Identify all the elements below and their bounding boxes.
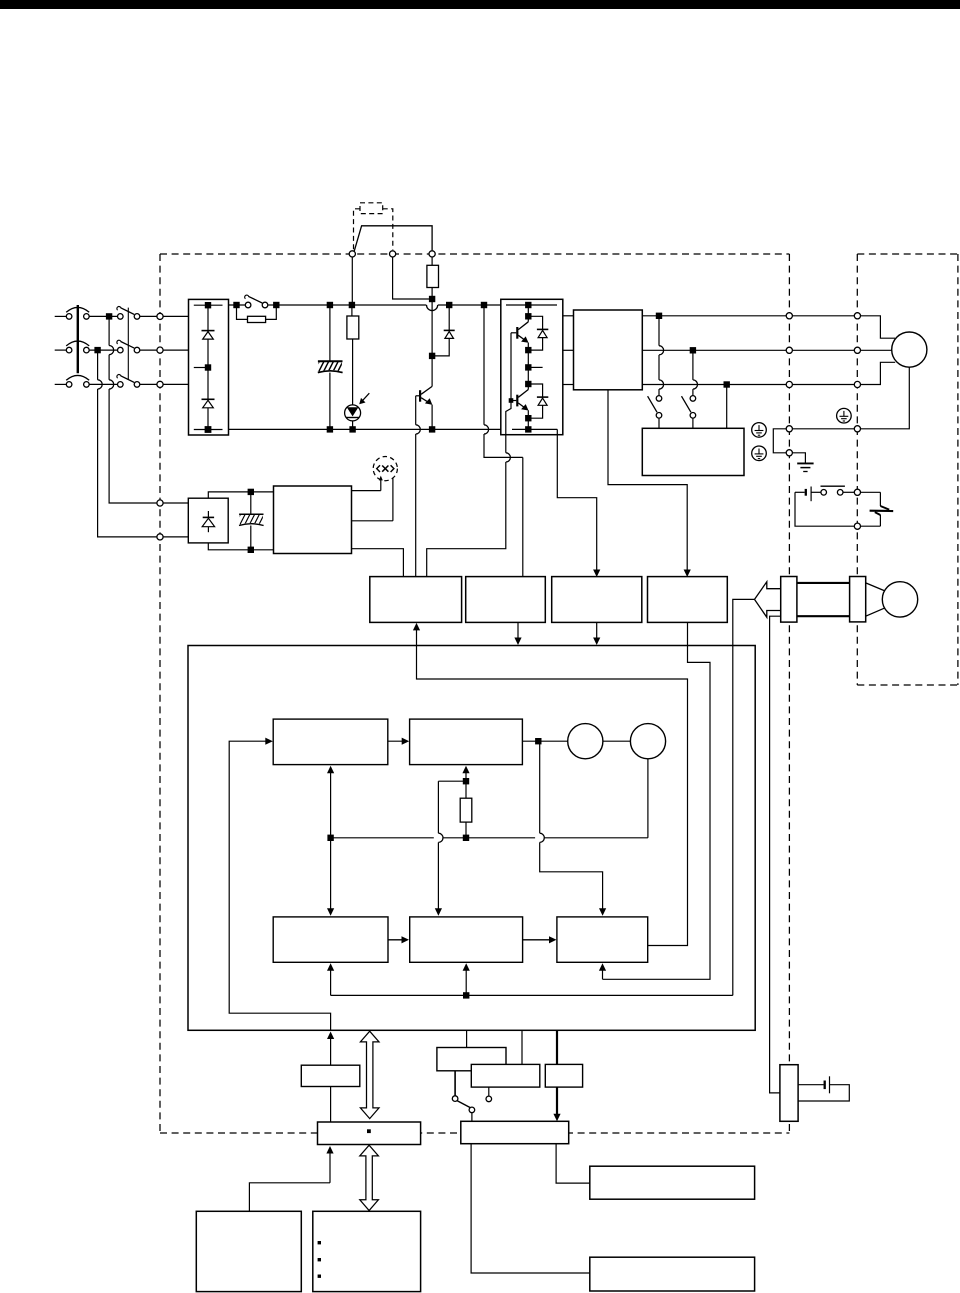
current detector box <box>574 310 643 390</box>
ground earth symbol <box>792 453 805 464</box>
wire W to motor connector <box>792 384 854 386</box>
wire NFB to MC L3 <box>89 383 117 385</box>
switch dynamic brake V <box>690 396 696 402</box>
block actual position control <box>273 917 388 962</box>
terminal L3 <box>157 381 163 387</box>
contact brake interlock <box>821 490 827 496</box>
capacitor smoothing electrolytic <box>329 305 331 361</box>
node rectifier N <box>205 426 212 433</box>
node rectifier P <box>205 302 211 308</box>
connector box amplifier side <box>781 577 797 623</box>
contactor mechanical tie <box>127 308 129 380</box>
rectifier bridge box <box>189 299 229 435</box>
motor-side dashed boundary <box>857 253 958 255</box>
wire U to motor connector <box>792 315 854 317</box>
wire current detector to current detection circuit <box>608 390 687 570</box>
wire virtual encoder feedback <box>331 837 434 839</box>
block voltage detection <box>466 577 546 623</box>
wire motor earth <box>861 367 910 429</box>
fan cooling <box>352 490 381 492</box>
wire dynamic brake tap U <box>658 316 660 346</box>
wire current control to base amplifier <box>417 628 688 946</box>
cable encoder <box>797 582 850 584</box>
wire control DC minus <box>208 543 273 550</box>
inverter bottom rail <box>512 428 557 430</box>
node control power tap phase L2 <box>94 347 100 353</box>
brake power supply battery <box>795 491 805 493</box>
block model position control <box>273 719 388 765</box>
contactor MC pole L2 <box>118 347 124 353</box>
wire connector to encoder <box>866 583 887 592</box>
block actual speed control <box>410 917 523 962</box>
node P bus voltage-detection tap <box>481 302 487 308</box>
earth terminal PE motor <box>837 408 852 423</box>
contactor MC pole L3 <box>118 382 124 388</box>
inverter top rail <box>506 304 557 306</box>
wire virtual motor to virtual encoder <box>603 740 631 742</box>
node P bus capacitor tap <box>327 302 333 308</box>
breaker NFB pole L2 <box>66 347 72 353</box>
rectifier mid tap <box>194 367 208 369</box>
dashed lead to terminal C <box>383 209 393 250</box>
node inverter output U <box>527 350 529 384</box>
wire V to motor connector <box>792 349 854 351</box>
box digital IO <box>590 1257 755 1291</box>
motor terminal V <box>854 347 860 353</box>
wire MC to terminal L3 <box>140 383 157 385</box>
block overcurrent detection <box>552 577 642 623</box>
node P bus regen resistor tap <box>349 302 355 308</box>
wire P bus from rectifier <box>229 304 246 306</box>
wire N bus <box>229 428 501 430</box>
control rectifier box <box>188 498 228 543</box>
terminal U <box>786 313 792 319</box>
block interface E <box>330 1038 332 1066</box>
capacitor control smoothing <box>250 492 252 514</box>
earth terminal PE amplifier lower <box>752 446 767 461</box>
resistor regen internal <box>431 257 433 265</box>
terminal D <box>429 251 435 257</box>
wire NFB to MC L1 <box>89 315 117 317</box>
motor terminal W <box>854 381 860 387</box>
node regen resistor output <box>429 296 435 302</box>
wire control DC plus <box>208 492 273 498</box>
terminal brake B1 <box>854 489 860 495</box>
relay contact inrush bypass <box>245 302 251 308</box>
box setup software <box>313 1211 421 1291</box>
wire input phase L3 <box>55 383 66 385</box>
box analog monitor <box>590 1166 755 1199</box>
motor terminal U <box>854 313 860 319</box>
diode regenerative freewheel <box>448 305 450 330</box>
motor servomotor M <box>892 332 927 367</box>
wire output phase V <box>642 349 786 351</box>
transistor inverter upper <box>527 305 529 322</box>
wire encoder feedback line <box>733 599 754 995</box>
wire output phase U <box>642 315 786 317</box>
wire overcurrent detection to controller <box>596 622 598 638</box>
wire voltage detection to controller <box>517 622 519 638</box>
wire C terminal down <box>393 257 433 299</box>
block interface D3 <box>556 1030 558 1064</box>
node N bus capacitor <box>327 426 333 432</box>
terminal earth amplifier 2 <box>786 450 792 456</box>
thyristor regenerative <box>345 405 361 421</box>
wire command input to model position <box>229 741 330 1030</box>
terminal earth motor-side <box>854 426 860 432</box>
wire dynamic brake tap W <box>726 385 728 429</box>
node inrush left <box>233 302 239 308</box>
wire model speed output <box>522 740 567 742</box>
terminal L1 <box>157 313 163 319</box>
resistor model feedback <box>465 781 467 798</box>
terminal L11 <box>157 500 163 506</box>
terminal P <box>349 251 355 257</box>
breaker NFB pole L3 <box>66 382 72 388</box>
breaker NFB pole L1 <box>66 314 72 320</box>
regenerative brake option dashed box <box>360 203 383 214</box>
rectifier internal bottom rail <box>194 429 223 431</box>
bidirectional bus arrow lower <box>360 1145 379 1210</box>
wire model speed feedback <box>465 773 467 781</box>
wire dynamic brake tap V <box>692 350 694 380</box>
wire L21 to control rectifier <box>163 536 188 538</box>
box personal computer <box>196 1211 301 1291</box>
wire control power L11 <box>108 316 110 345</box>
node inrush right <box>273 302 279 308</box>
wire terminal L3 to rectifier <box>163 383 188 385</box>
control power supply box <box>274 486 352 554</box>
wire encoder battery line <box>770 616 781 1093</box>
terminal brake B2 <box>854 523 860 529</box>
wire motor lead W <box>861 362 896 384</box>
wire servo on signal <box>556 1087 558 1114</box>
wire encoder feedback to actual control <box>330 969 332 996</box>
resistor regenerative internal <box>351 305 353 316</box>
dynamic brake circuit box <box>642 428 744 475</box>
wire brake loop left <box>795 492 854 526</box>
node control power tap phase L1 <box>106 313 112 319</box>
contactor MC pole L1 <box>118 314 124 320</box>
wire terminal L2 to rectifier <box>163 349 188 351</box>
wire P bus <box>276 304 426 306</box>
wire P terminal to bus <box>351 257 353 305</box>
resistor inrush <box>237 305 248 319</box>
wire L11 to control rectifier <box>163 502 188 504</box>
wire regen node to transistor collector <box>431 299 433 356</box>
wire NFB to MC L2 <box>89 349 117 351</box>
wire control power L21 <box>97 350 99 380</box>
earth terminal PE amplifier upper <box>752 423 767 438</box>
diode inverter upper freewheel <box>528 316 542 329</box>
servo amplifier dashed boundary <box>160 253 789 255</box>
rectifier internal bus <box>194 304 223 306</box>
wire terminal L1 to rectifier <box>163 315 188 317</box>
inverter IGBT module box <box>501 299 563 434</box>
terminal C <box>390 251 396 257</box>
break continuation mark <box>880 506 889 510</box>
connector box encoder side <box>850 577 866 622</box>
wire CN3 to analog monitor <box>556 1144 590 1183</box>
terminal V <box>786 347 792 353</box>
switch dynamic brake U <box>656 396 662 402</box>
block current control <box>557 917 648 962</box>
connector battery CON <box>780 1065 798 1122</box>
circle virtual encoder <box>630 724 665 759</box>
terminal L21 <box>157 534 163 540</box>
wire model speed to current control <box>539 741 541 833</box>
node N bus thyristor <box>349 426 355 432</box>
encoder <box>882 582 917 617</box>
wire model torque to actual speed <box>437 781 439 833</box>
wire inverter N rail to current sense <box>557 429 596 570</box>
terminal L2 <box>157 347 163 353</box>
node regen collector <box>429 353 435 359</box>
wire PSU to base amplifier <box>352 549 404 577</box>
block model speed control <box>410 719 523 765</box>
wire actual speed to current control <box>523 939 554 941</box>
block D/A conversion <box>437 1048 506 1071</box>
wire MC to terminal L1 <box>140 315 157 317</box>
wire input phase L1 <box>55 315 66 317</box>
bidirectional bus arrow upper <box>360 1031 379 1118</box>
breaker mechanical tie <box>77 305 79 373</box>
switch monitor select <box>454 1071 456 1096</box>
wire MC to terminal L2 <box>140 349 157 351</box>
battery backup <box>798 1084 824 1086</box>
terminal W <box>786 381 792 387</box>
wire brake loop right <box>861 491 881 493</box>
diode rectifier lower <box>202 398 215 400</box>
connector arrow CN2 <box>755 582 781 618</box>
diode inverter lower freewheel <box>528 384 542 397</box>
controller box <box>188 646 755 1031</box>
wire input phase L2 <box>55 349 66 351</box>
wire regen base to base-amplifier <box>416 395 419 397</box>
wire resistor to thyristor <box>352 339 354 405</box>
terminal earth amplifier <box>786 426 792 432</box>
block base amplifier <box>370 577 462 623</box>
wire P bus to voltage detection <box>483 305 485 425</box>
node N bus regen emitter <box>429 426 435 432</box>
wire contact to node <box>268 304 277 306</box>
wire actual position to actual speed <box>388 939 406 941</box>
wire regen jumper P-D <box>354 226 432 251</box>
wire model position to model speed <box>388 740 407 742</box>
dashed lead to terminal P <box>354 209 361 250</box>
title bar <box>0 0 960 9</box>
diode rectifier upper <box>202 330 215 332</box>
connector CN3 <box>461 1121 569 1143</box>
block current detection <box>648 577 728 623</box>
wire output phase W <box>642 384 786 386</box>
wire inverter outputs to current detector <box>563 315 574 317</box>
node P bus regen diode tap <box>446 302 452 308</box>
block interface D2 <box>521 1030 523 1064</box>
circle virtual motor <box>568 724 603 759</box>
wire motor lead V <box>861 349 892 351</box>
diode control rectifier <box>207 511 209 517</box>
wire model-actual exchange <box>330 772 332 910</box>
transistor inverter lower <box>527 384 529 390</box>
wire current detection to current control <box>602 969 604 980</box>
wire motor lead U <box>861 316 896 338</box>
wire CN3 to digital IO <box>471 1144 590 1273</box>
wire inverter base leads <box>511 332 516 334</box>
wire CN1 to personal computer <box>329 1152 331 1183</box>
connector CN1 <box>318 1122 421 1145</box>
transistor regenerative Q <box>431 356 433 387</box>
